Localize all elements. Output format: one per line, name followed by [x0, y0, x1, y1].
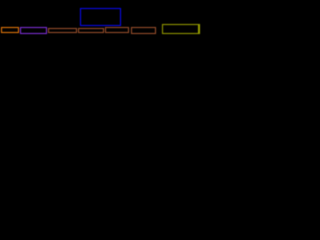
brown box 4	[78, 28, 104, 33]
orange box 1	[1, 27, 20, 33]
brown box 6	[131, 27, 156, 34]
brown box 3	[48, 28, 77, 33]
purple box 2	[20, 27, 48, 34]
blue panel	[80, 8, 121, 26]
olive box 7	[162, 24, 201, 34]
brown box 5	[105, 27, 130, 33]
